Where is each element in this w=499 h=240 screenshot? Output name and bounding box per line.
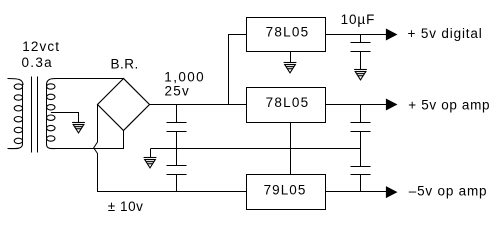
svg-text:12vct: 12vct [22,39,60,54]
wire center tap to ground [51,113,79,123]
capacitor C2 lower [167,149,187,192]
wire +10v rail to 78L05 input [149,104,247,106]
output arrow -5v op amp [386,187,396,197]
svg-text:–5v op amp: –5v op amp [409,184,488,199]
wire ground mid rail [151,148,361,150]
transformer T1 secondary winding [47,79,57,149]
wire U2 output [326,104,387,106]
output arrow +5v op amp [386,99,396,109]
regulator U3 79L05 [247,175,326,210]
output arrow +5v digital [386,29,396,39]
wire riser to U1 input [229,35,247,105]
wire U3 output [326,191,387,193]
capacitor C4 op amp supply upper [351,105,371,149]
label capacitor value 1,000 25v [164,69,205,98]
ground (filter mid rail) [144,149,157,168]
svg-text:B.R.: B.R. [111,56,139,71]
wire U1 output [326,34,387,36]
svg-text:10µF: 10µF [341,12,376,27]
regulator U2 78L05 [247,88,326,123]
wire secondary top to bridge AC input [54,78,124,80]
transformer core [32,77,38,153]
capacitor C1 1,000uF upper [167,105,187,149]
ground (U1 ground pin) [284,52,297,73]
capacitor C5 op amp supply lower [351,149,371,192]
wire secondary bottom to bridge AC input [54,131,124,149]
wire bridge negative output with crossover hop [94,105,98,192]
bridge rectifier B.R. [98,79,150,131]
ground (center tap) [72,123,85,133]
regulator U1 78L05 [247,18,326,52]
capacitor C3 10uF [351,35,371,70]
svg-text:25v: 25v [165,83,191,98]
svg-text:+ 5v digital: + 5v digital [408,26,483,41]
label transformer value 12vct 0.3a [22,39,61,70]
svg-text:79L05: 79L05 [264,183,307,198]
svg-text:± 10v: ± 10v [108,199,144,214]
ground (below C3) [354,70,367,80]
svg-text:78L05: 78L05 [266,95,310,110]
svg-text:78L05: 78L05 [266,25,310,40]
wire U2 ground to U3 [290,123,292,175]
svg-text:1,000: 1,000 [164,69,205,84]
wire -10v rail to 79L05 input [97,191,247,193]
transformer T1 primary winding [8,79,24,149]
svg-text:0.3a: 0.3a [22,55,53,70]
svg-text:+ 5v op amp: + 5v op amp [408,98,490,113]
